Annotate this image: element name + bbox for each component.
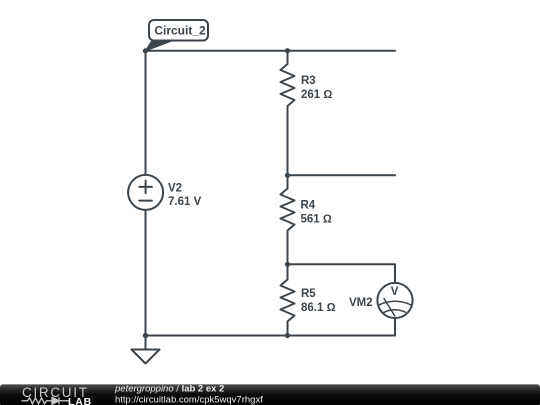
junction R5 bottom: [285, 333, 290, 338]
footer logo LAB: [68, 396, 92, 405]
svg-text:R5: R5: [301, 288, 316, 300]
wire voltmeter bottom: [394, 318, 396, 336]
svg-text:LAB: LAB: [68, 396, 92, 405]
resistor R4: [281, 175, 295, 264]
voltage source V2: [128, 175, 163, 210]
resistor R5: [281, 264, 295, 335]
node Circuit_2 flag: [145, 20, 208, 51]
junction R3 top: [285, 48, 290, 53]
svg-text:R3: R3: [301, 75, 316, 87]
wire middle rail: [288, 174, 396, 176]
wire left vertical top: [145, 51, 147, 175]
junction node top-left: [143, 48, 148, 53]
footer logo schematic squiggle: [22, 397, 69, 404]
svg-text:261 Ω: 261 Ω: [301, 89, 332, 101]
voltmeter VM2: [377, 283, 412, 318]
svg-text:V: V: [391, 286, 399, 298]
svg-text:86.1 Ω: 86.1 Ω: [301, 302, 336, 314]
svg-text:Circuit_2: Circuit_2: [154, 24, 206, 38]
ground: [132, 336, 160, 364]
junction ground: [143, 333, 148, 338]
svg-text:V2: V2: [168, 183, 182, 195]
svg-text:VM2: VM2: [349, 297, 373, 309]
svg-text:petergroppino / lab 2 ex 2: petergroppino / lab 2 ex 2: [114, 384, 224, 395]
junction R5 top: [285, 262, 290, 267]
wire bottom rail: [146, 335, 396, 337]
svg-text:R4: R4: [301, 200, 316, 212]
footer credit line: [114, 384, 263, 405]
svg-text:7.61 V: 7.61 V: [168, 196, 202, 208]
footer logo CIRCUIT: [22, 385, 89, 400]
svg-text:561 Ω: 561 Ω: [301, 214, 332, 226]
footer bar: [0, 384, 540, 405]
wire top rail: [146, 50, 396, 52]
wire third rail to voltmeter: [288, 264, 396, 283]
junction R4 top: [285, 173, 290, 178]
resistor R3: [281, 51, 295, 176]
wire left vertical bottom: [145, 210, 147, 336]
svg-text:http://circuitlab.com/cpk5wqv7: http://circuitlab.com/cpk5wqv7rhgxf: [115, 394, 263, 405]
